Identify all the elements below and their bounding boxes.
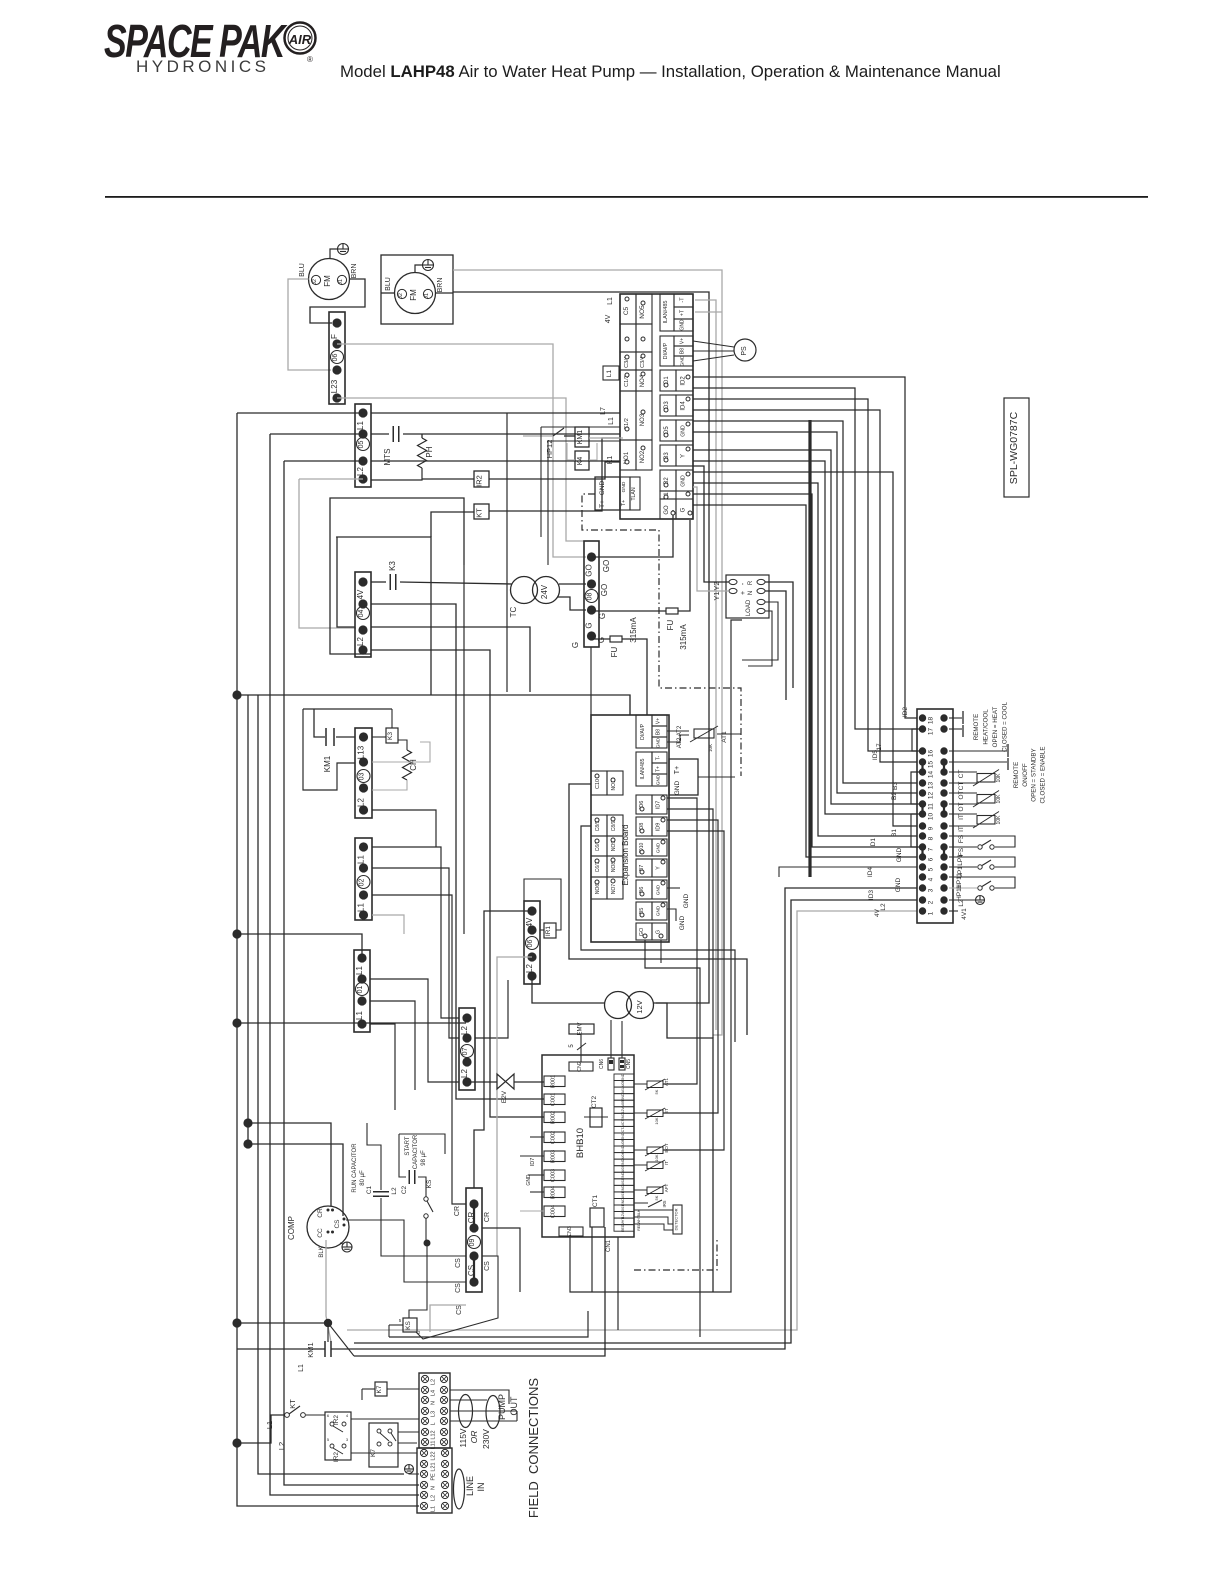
BHB10 cell C002: [544, 1132, 565, 1143]
wire TLAN T- gray: [695, 300, 716, 1030]
wire Y1 (gray): [693, 487, 729, 591]
svg-text:PUMP: PUMP: [497, 1394, 507, 1420]
wire KT to board: [489, 438, 620, 511]
thermistor CT: [949, 771, 977, 773]
relay cells blank: [620, 324, 636, 352]
SpacePak logo wordmark: [0, 0, 1224, 200]
svg-text:GND: GND: [896, 847, 903, 862]
wires LOAD right: [765, 582, 793, 688]
wires AT2: [667, 730, 689, 732]
svg-text:GO: GO: [602, 560, 611, 572]
ground symbol G2: [423, 260, 434, 271]
valve EEV: [497, 1074, 514, 1089]
svg-text:R001: R001: [551, 1075, 557, 1088]
svg-text:L: L: [431, 1422, 437, 1425]
svg-text:L2: L2: [958, 899, 965, 907]
exp cells B7 Y: [636, 859, 652, 877]
svg-text:START: START: [405, 1136, 411, 1155]
field terminal L4: [421, 1386, 428, 1393]
wire L2b to bus (gray): [299, 478, 363, 480]
relay KT: [474, 504, 489, 519]
wire CC down: [326, 1240, 331, 1342]
svg-text:6: 6: [928, 857, 935, 861]
exp cell DI/AI/P: [636, 715, 652, 748]
svg-text:315mA: 315mA: [679, 624, 688, 650]
relay cells C1/2 NO4: [620, 370, 636, 391]
svg-text:G: G: [681, 507, 687, 512]
relay IR2: [474, 471, 489, 487]
svg-text:ILAN/485: ILAN/485: [640, 758, 646, 779]
svg-text:T+: T+: [621, 500, 627, 507]
svg-text:L2: L2: [460, 1026, 469, 1035]
thermistor IT small: [647, 1162, 663, 1169]
svg-text:GND: GND: [621, 481, 627, 492]
svg-text:CN5: CN5: [626, 1059, 632, 1069]
svg-text:IR2: IR2: [475, 475, 484, 487]
wire 4V row: [371, 604, 544, 1099]
svg-text:4V: 4V: [605, 314, 612, 323]
exp cells GO G: [636, 923, 652, 940]
svg-text:J2: J2: [312, 279, 318, 285]
field terminal L: [421, 1417, 428, 1424]
wire L2 row to x530: [371, 627, 530, 692]
svg-text:FM: FM: [323, 275, 332, 287]
BHB10 stubs left: [530, 1116, 544, 1118]
svg-text:ID7: ID7: [530, 1158, 536, 1167]
svg-text:CR: CR: [317, 1208, 324, 1218]
connector CN2: [569, 1062, 593, 1071]
svg-text:N: N: [431, 1486, 437, 1490]
wire bottom y1356: [354, 1227, 605, 1356]
TB18 pin 17: [919, 725, 926, 732]
svg-text:AFT: AFT: [664, 1183, 669, 1192]
BHB10 cell R003: [544, 1151, 565, 1162]
wires board ID outputs to terminal block: [693, 377, 917, 718]
exp cells ID10 GND: [636, 839, 652, 856]
svg-text:GND: GND: [656, 842, 661, 853]
exp relay cells C5/7 NO8: [591, 856, 607, 877]
field terminal L2: [421, 1375, 428, 1382]
svg-text:L2: L2: [431, 1495, 437, 1501]
field terminal L21: [420, 1460, 427, 1467]
BHB10 cell R004: [544, 1187, 565, 1198]
field terminal L22: [420, 1449, 427, 1456]
svg-text:B3: B3: [892, 782, 899, 790]
capacitor K3: [371, 581, 386, 583]
svg-text:GO: GO: [664, 505, 670, 515]
cells GO G: [660, 499, 676, 519]
wire FM2 to board right: [453, 292, 709, 1003]
field terminal L3: [421, 1407, 428, 1414]
BHB10 terminal strip CN1: [614, 1074, 634, 1081]
ground symbol PE: [405, 1465, 414, 1474]
svg-text:L2: L2: [391, 1187, 398, 1195]
drawing number box SPL-WG0787C: [1004, 398, 1029, 497]
svg-text:GND: GND: [680, 319, 686, 331]
exp cell ILAN/485: [636, 752, 652, 786]
svg-text:RUN CAPACITOR: RUN CAPACITOR: [352, 1143, 358, 1193]
wire L1 to bus: [237, 412, 363, 414]
svg-text:BHB10: BHB10: [575, 1128, 586, 1158]
svg-text:L2: L2: [460, 1069, 469, 1078]
svg-text:12V: 12V: [621, 1211, 625, 1218]
svg-text:G: G: [571, 642, 580, 648]
svg-text:NO7: NO7: [611, 884, 617, 895]
svg-text:BLK: BLK: [637, 1209, 641, 1216]
wire K4 loop: [567, 443, 575, 460]
small box L1: [603, 366, 619, 380]
svg-text:FM: FM: [409, 289, 418, 301]
svg-text:R: R: [748, 580, 754, 585]
relay K7 coil: [375, 1382, 387, 1396]
svg-text:315mA: 315mA: [629, 617, 638, 643]
svg-text:COMP: COMP: [287, 1216, 296, 1240]
wires PS: [693, 341, 734, 347]
svg-text:1: 1: [928, 911, 935, 915]
svg-text:ID4: ID4: [681, 401, 687, 411]
svg-text:K1: K1: [607, 456, 614, 465]
svg-text:CLOSED = ENABLE: CLOSED = ENABLE: [1039, 747, 1046, 804]
svg-text:IT: IT: [958, 814, 965, 820]
TB18 jumper brackets: [912, 729, 923, 751]
svg-text:4V: 4V: [525, 917, 534, 927]
pump out wire loops: [459, 1395, 473, 1428]
svg-text:NO8: NO8: [611, 862, 617, 873]
svg-text:-: -: [740, 582, 747, 585]
svg-text:FU: FU: [610, 646, 619, 657]
wire bus y1443: [237, 1415, 285, 1443]
svg-text:L2: L2: [356, 637, 365, 646]
wires CS gray: [430, 1305, 466, 1332]
svg-text:KM1: KM1: [323, 755, 332, 772]
BHB10 cell C004: [544, 1206, 565, 1217]
svg-text:HP12: HP12: [545, 440, 554, 459]
wire comp CS feed: [248, 1144, 343, 1216]
TB18 pin 18: [919, 714, 926, 721]
svg-text:G: G: [597, 637, 606, 643]
svg-text:GND: GND: [681, 475, 687, 487]
cells B2 GND: [660, 470, 676, 491]
wire KT left: [431, 512, 474, 537]
svg-text:Y2: Y2: [712, 581, 721, 590]
TB18 pin 13: [919, 779, 926, 786]
svg-text:CR: CR: [484, 1212, 491, 1222]
svg-text:12V: 12V: [621, 1107, 625, 1114]
svg-text:KT: KT: [475, 508, 484, 518]
pressure sensor PS: [734, 339, 756, 361]
switch HP12: [523, 435, 553, 437]
wire FM2 BRN: [436, 292, 454, 294]
svg-text:HEAT/COOL: HEAT/COOL: [983, 709, 990, 745]
BHB10 cell C003: [544, 1170, 565, 1181]
svg-text:TC: TC: [509, 606, 518, 617]
svg-text:FU: FU: [666, 619, 675, 630]
thermistor OT: [949, 792, 977, 794]
svg-text:N: N: [748, 591, 754, 595]
svg-text:TLAN: TLAN: [631, 487, 637, 501]
TB18 pin 10: [919, 810, 926, 817]
connector CN6: [608, 1058, 614, 1070]
svg-text:LINE: LINE: [465, 1476, 475, 1496]
svg-text:GND: GND: [656, 884, 661, 895]
svg-text:24V: 24V: [540, 584, 549, 599]
relay box K7 contacts: [369, 1423, 398, 1467]
svg-text:L23: L23: [330, 379, 339, 393]
svg-text:6: 6: [327, 1413, 330, 1418]
TB18 pin 12: [919, 789, 926, 796]
svg-text:C10: C10: [595, 779, 601, 789]
svg-text:ILAN/485: ILAN/485: [663, 301, 669, 324]
svg-text:06: 06: [527, 940, 534, 948]
TB18 pin 9: [919, 822, 926, 829]
svg-text:-T: -T: [680, 297, 686, 303]
svg-text:EOT: EOT: [664, 1143, 669, 1153]
transformer CT1: [590, 1208, 604, 1227]
svg-text:KM1: KM1: [577, 430, 584, 445]
transformer CT2: [590, 1108, 602, 1127]
svg-text:T-: T-: [656, 755, 662, 760]
svg-text:FS: FS: [958, 834, 965, 843]
svg-text:G: G: [598, 613, 607, 619]
field terminal L12: [421, 1428, 428, 1435]
svg-text:10K: 10K: [708, 744, 713, 752]
svg-text:5: 5: [399, 1318, 402, 1323]
svg-text:15: 15: [928, 761, 935, 769]
svg-text:04: 04: [358, 610, 365, 618]
svg-text:+: +: [740, 591, 747, 595]
field terminal N: [420, 1481, 427, 1488]
bus wire x299 (gray): [299, 479, 356, 628]
svg-text:B8: B8: [656, 729, 662, 735]
svg-text:CC: CC: [317, 1228, 324, 1238]
TB18 pin 1: [919, 907, 926, 914]
relay IR1: [544, 923, 556, 938]
svg-text:KS: KS: [405, 1321, 412, 1330]
wire bottom y1292: [570, 620, 742, 1292]
svg-text:OPEN = STANDBY: OPEN = STANDBY: [1031, 748, 1038, 801]
svg-text:98 µF: 98 µF: [421, 1150, 427, 1166]
svg-text:AT1: AT1: [664, 1078, 669, 1086]
svg-text:BLU: BLU: [385, 277, 392, 291]
svg-text:L4: L4: [431, 1390, 437, 1396]
svg-text:GND: GND: [895, 877, 902, 892]
terminal strip GO/08/G: [584, 541, 599, 647]
capacitor MTS: [371, 433, 389, 435]
exp cells ID8 ID9: [636, 817, 652, 836]
svg-text:16: 16: [928, 750, 935, 758]
contactor KM1: [575, 427, 589, 447]
wires CR right loops: [482, 1228, 520, 1292]
wire Y2: [693, 466, 729, 582]
terminal strip L1/02/L1: [355, 838, 372, 920]
TB18 pin 4: [919, 873, 926, 880]
svg-text:J1: J1: [424, 293, 430, 299]
fan motor FM1: [309, 259, 350, 300]
fuse FU2 315mA: [591, 610, 666, 612]
svg-text:10K: 10K: [996, 794, 1002, 804]
pin1 4V1: [949, 910, 958, 912]
thermistor AFT small: [647, 1187, 663, 1194]
relay box IR2 bottom: [325, 1412, 351, 1460]
resistor CH: [403, 750, 412, 780]
svg-text:+T: +T: [680, 309, 686, 316]
remote on/off contacts: [949, 750, 1007, 752]
terminal strip 4V/04/L2: [355, 572, 371, 657]
svg-text:RED: RED: [637, 1223, 641, 1231]
wire L2 bottom row: [371, 650, 544, 1117]
svg-text:06: 06: [332, 354, 339, 362]
svg-text:17: 17: [928, 728, 935, 736]
svg-text:CT: CT: [958, 770, 965, 779]
svg-text:NO6: NO6: [595, 884, 601, 895]
svg-text:NO3: NO3: [640, 413, 646, 426]
svg-text:REMOTE: REMOTE: [973, 714, 980, 740]
wire mesh y537: [336, 536, 431, 538]
svg-text:NO5: NO5: [639, 305, 646, 319]
wire CN area down: [617, 1237, 619, 1330]
svg-text:ET: ET: [664, 1108, 669, 1114]
bus wire x258: [258, 695, 404, 1474]
pressure switch HP11: [949, 877, 1015, 888]
cells ID5 GND: [660, 420, 676, 441]
relay cells NO1 NO2: [620, 440, 636, 470]
svg-text:K3: K3: [387, 732, 394, 740]
svg-text:L1: L1: [356, 421, 365, 430]
svg-text:RED: RED: [621, 1224, 625, 1232]
svg-text:L12: L12: [431, 1430, 437, 1439]
loop IR1: [524, 879, 561, 930]
svg-text:CS: CS: [484, 1261, 491, 1271]
exp relay cells C6/7 NO9: [591, 836, 607, 856]
svg-text:L2: L2: [525, 964, 534, 973]
wire bus y934: [237, 934, 362, 958]
wire FM1 BLU: [288, 279, 331, 370]
svg-text:14: 14: [928, 771, 935, 779]
svg-text:C002: C002: [551, 1131, 557, 1144]
TB18 pin 14: [919, 768, 926, 775]
header rule: [105, 196, 1148, 198]
wire mesh vertical x548: [547, 441, 549, 565]
svg-text:L3: L3: [431, 1411, 437, 1417]
board BHB10 outline: [542, 1055, 634, 1237]
svg-text:CT: CT: [621, 1127, 625, 1133]
terminal strip L1/05/L2: [355, 404, 371, 487]
svg-text:80 µF: 80 µF: [360, 1170, 366, 1186]
svg-text:OT: OT: [958, 802, 965, 811]
svg-text:J1: J1: [338, 279, 344, 285]
relay cells C3/4: [620, 352, 636, 370]
svg-text:IR2: IR2: [333, 1415, 340, 1426]
wire strip L2 gray: [482, 957, 532, 1256]
svg-text:2: 2: [928, 900, 935, 904]
cells T+ GND TLAN: [620, 477, 630, 510]
terminal strip F/06/L23: [329, 312, 345, 404]
svg-text:4V1: 4V1: [961, 908, 968, 920]
terminal strip L1/01/L1: [354, 950, 370, 1032]
svg-text:CS: CS: [455, 1283, 462, 1293]
wire EMV to CN2 with 5: [580, 1034, 582, 1062]
svg-text:KT: KT: [288, 1399, 297, 1409]
TB18 pin 15: [919, 758, 926, 765]
field terminal block lower: [417, 1448, 452, 1513]
cell ILAN/485: [660, 294, 674, 331]
exp relay cells NO6 NO7: [591, 877, 607, 899]
wire CT1 down: [591, 1227, 593, 1292]
svg-text:K3: K3: [388, 561, 397, 571]
terminal strip 4V/06/L2: [524, 901, 540, 984]
svg-text:L2: L2: [880, 903, 887, 911]
svg-text:T+: T+: [656, 766, 662, 772]
svg-text:L1: L1: [265, 1421, 274, 1429]
wires L1 strip: [370, 979, 459, 1082]
svg-text:L1: L1: [608, 417, 615, 425]
svg-text:L1: L1: [298, 1364, 305, 1372]
cells ID3 ID4: [660, 395, 676, 416]
valve EMV: [569, 1024, 594, 1034]
svg-text:EMV: EMV: [578, 1022, 584, 1035]
exp left wrap wires: [629, 695, 631, 715]
contactor K4: [575, 451, 589, 470]
ground L2 pin2: [949, 899, 975, 901]
connector CN5: [619, 1058, 625, 1070]
wire strip B to board row3: [371, 460, 620, 462]
svg-text:PH: PH: [425, 446, 434, 457]
svg-text:Y1: Y1: [712, 591, 721, 600]
svg-text:CH: CH: [409, 759, 418, 771]
svg-text:GO: GO: [600, 584, 609, 596]
exp ID wires to sensors: [663, 798, 697, 1084]
svg-text:L1: L1: [431, 1506, 437, 1512]
wire L13 right loop: [372, 742, 430, 762]
svg-text:CAPACITOR: CAPACITOR: [413, 1134, 419, 1169]
TB18 pin 8: [919, 832, 926, 839]
svg-text:K7: K7: [376, 1385, 383, 1393]
svg-text:C1: C1: [366, 1185, 373, 1194]
svg-text:2: 2: [418, 1330, 421, 1335]
thermistor ET small: [647, 1110, 663, 1117]
wire FM2 BLU: [381, 292, 395, 294]
svg-text:IR1: IR1: [545, 926, 552, 937]
ground symbol comp: [342, 1242, 352, 1252]
svg-text:G: G: [656, 930, 662, 934]
svg-text:ON/OFF: ON/OFF: [1022, 763, 1029, 787]
svg-text:17: 17: [876, 743, 883, 751]
wire 02 strip r2: [372, 868, 459, 1038]
svg-text:L2: L2: [357, 798, 366, 807]
wire C1 top loop: [367, 1123, 381, 1152]
svg-text:HP11: HP11: [956, 885, 963, 901]
svg-text:L21: L21: [431, 1462, 437, 1471]
fuse FU1 315mA: [591, 638, 610, 640]
svg-text:LOAD: LOAD: [746, 599, 752, 616]
wire strip 4V left: [474, 911, 532, 1188]
svg-text:GND: GND: [680, 355, 686, 366]
svg-text:CT2: CT2: [591, 1095, 598, 1108]
remote heat/cool contacts: [949, 717, 962, 719]
dashed boundary: [582, 494, 741, 776]
svg-text:7: 7: [928, 847, 935, 851]
svg-text:ID3: ID3: [868, 890, 875, 901]
svg-text:GND: GND: [656, 905, 661, 916]
svg-text:07: 07: [462, 1048, 469, 1056]
resistor PH: [418, 438, 427, 468]
wire 02 strip r3: [372, 895, 466, 1204]
svg-text:5K: 5K: [654, 1195, 659, 1200]
cell B1: [660, 491, 676, 499]
svg-text:02: 02: [359, 879, 366, 887]
terminal strip L2/07/L2: [459, 1008, 475, 1090]
svg-text:L1: L1: [607, 297, 614, 305]
